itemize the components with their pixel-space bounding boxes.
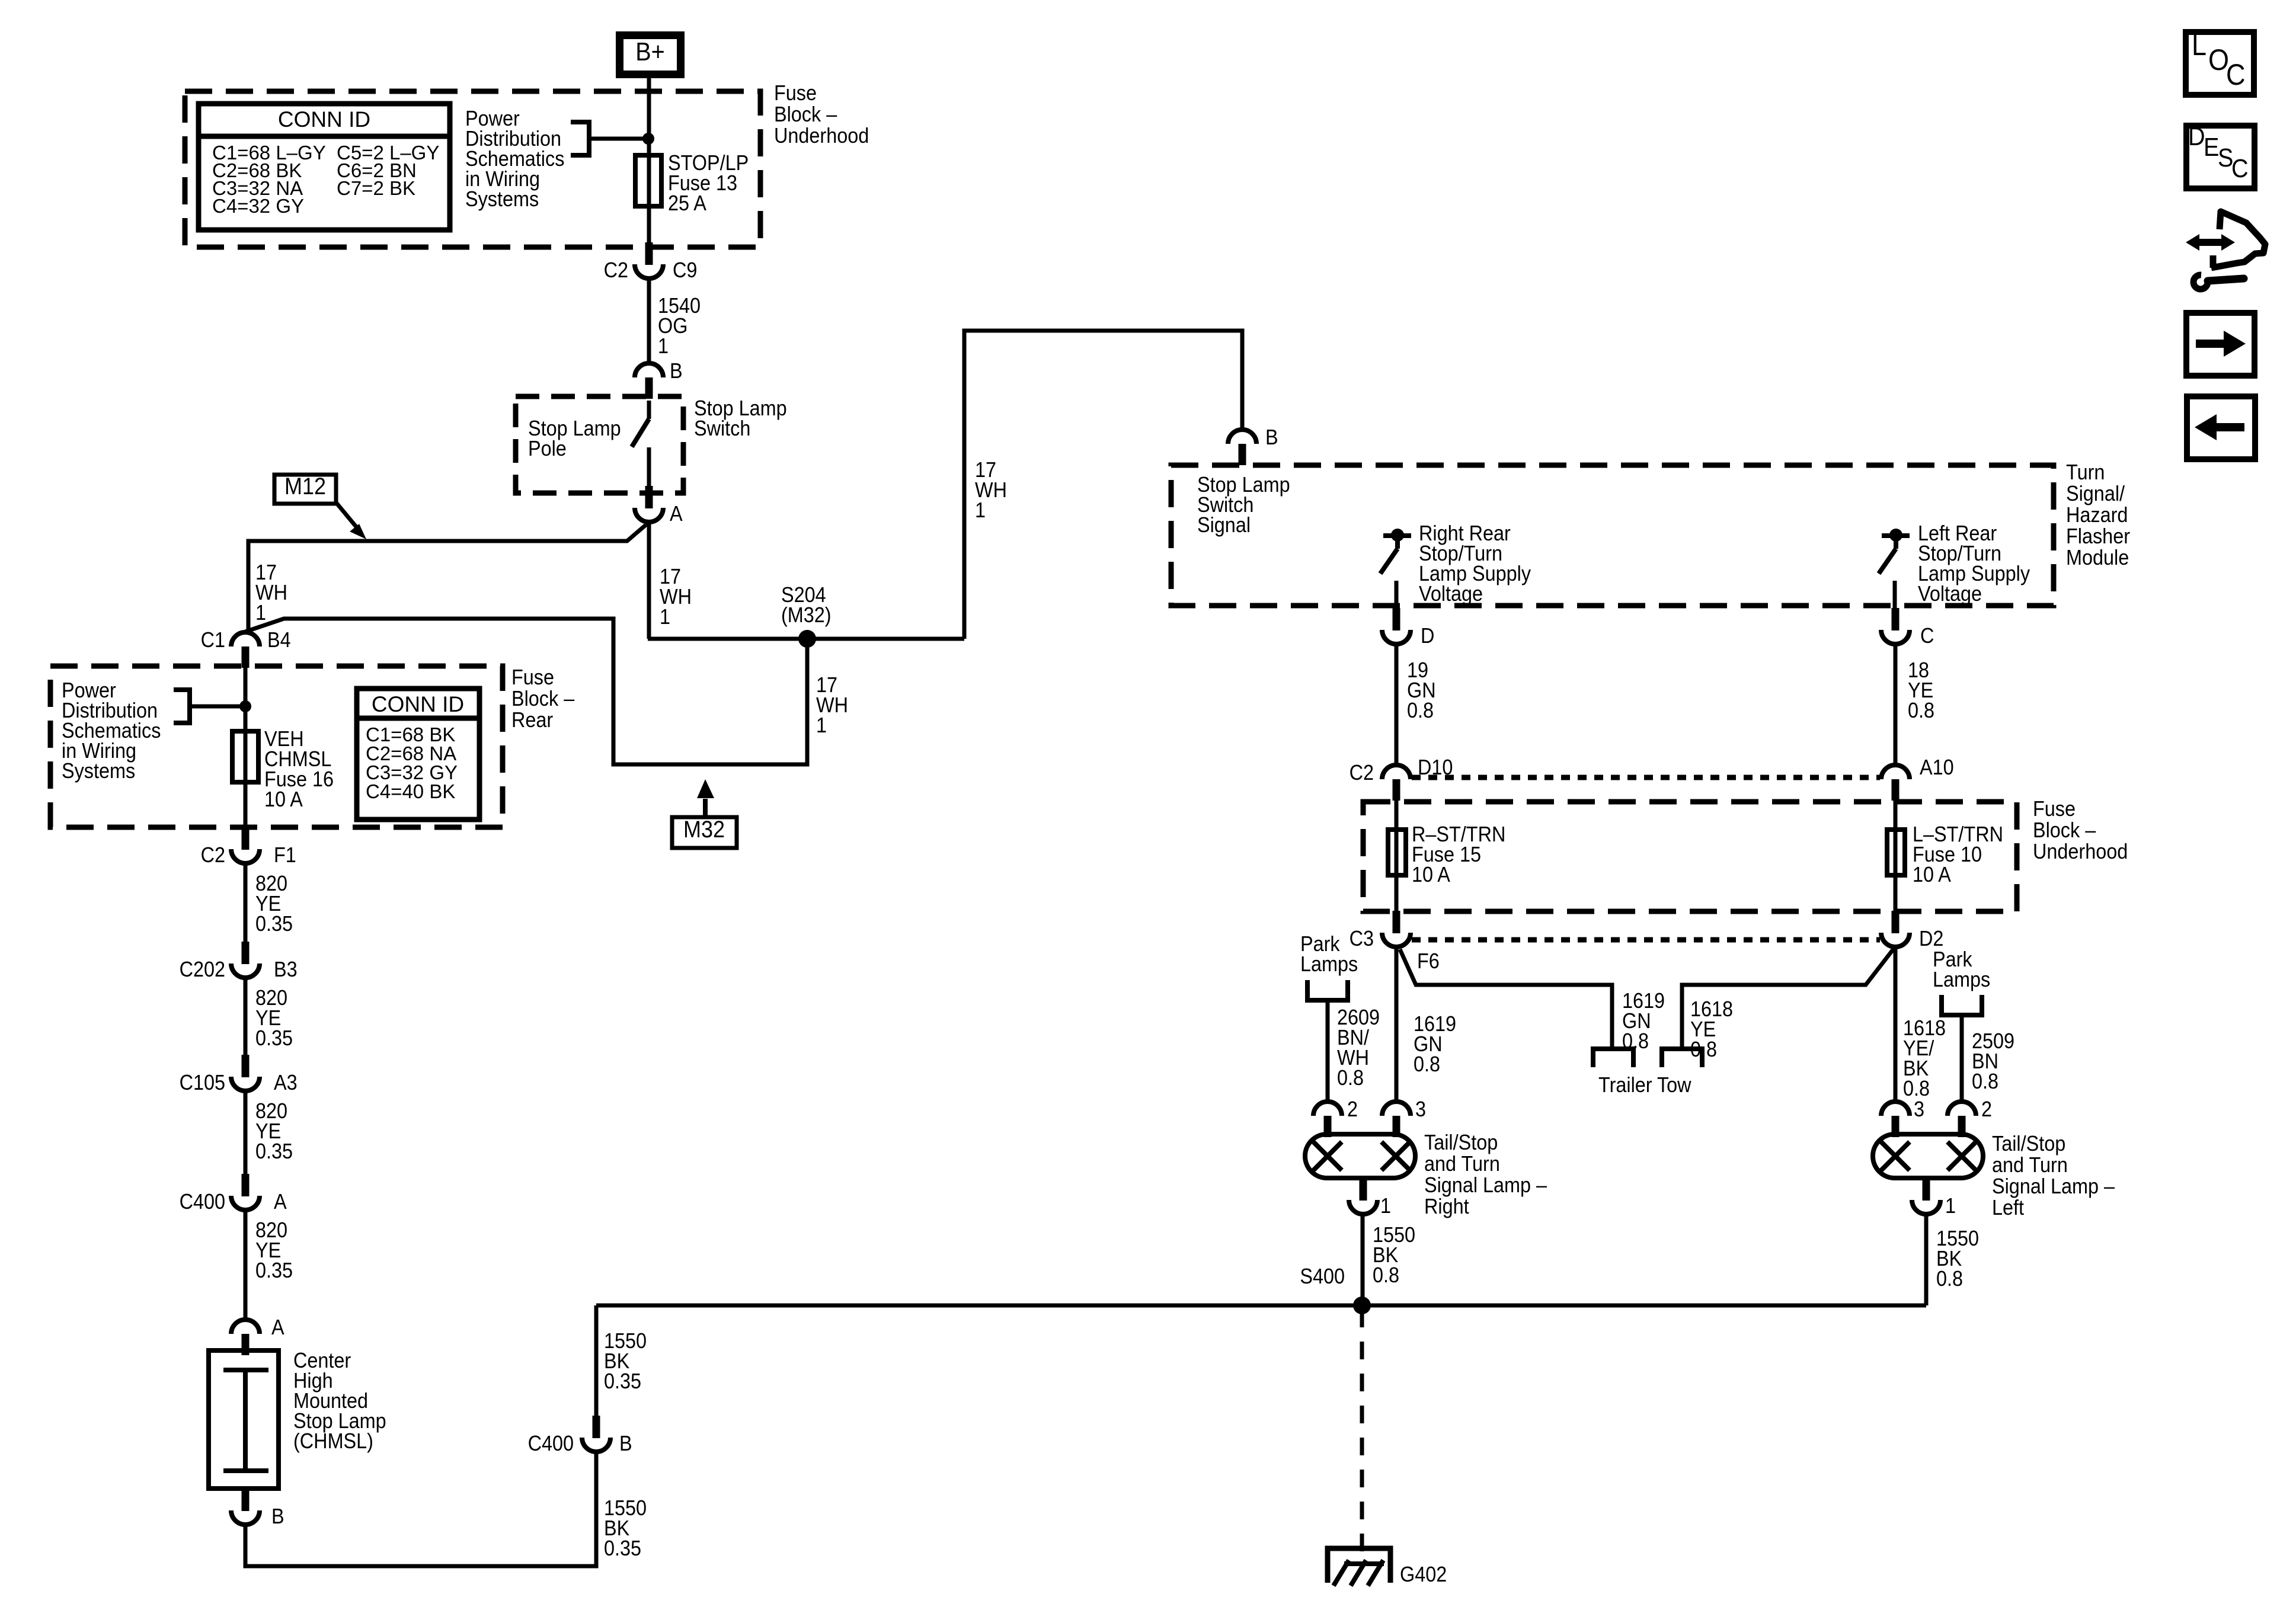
connector C2/F1 [242,827,250,850]
label S204 (M32) [781,583,826,607]
label wire 17 WH 1 (left drop) [255,561,277,584]
svg-text:C400: C400 [528,1432,574,1455]
connector C module [1892,608,1900,630]
svg-text:C4=40 BK: C4=40 BK [366,780,455,802]
label wire 1618 YE 0.8 (trailer) [1690,997,1733,1021]
wire 17 WH from A down to S204 line [647,522,651,639]
connector pin3 left lamp [1881,1102,1910,1116]
trailer tow fork left [1593,1049,1633,1067]
connector C202/B3 [242,942,250,964]
svg-text:Pole: Pole [528,437,567,460]
svg-text:Voltage: Voltage [1918,582,1982,606]
label Center High Mounted Stop Lamp (CHMSL) [293,1349,351,1372]
icon DESC box [2186,126,2255,188]
svg-text:1: 1 [816,713,827,737]
label Left Rear Stop/Turn Lamp Supply Voltage [1918,521,1997,545]
svg-text:D: D [1421,624,1434,648]
svg-text:1: 1 [1945,1194,1956,1218]
svg-text:M32: M32 [683,817,725,843]
dotted connector line C2-A10 [1412,775,1880,780]
svg-text:A: A [670,502,683,526]
svg-text:(CHMSL): (CHMSL) [293,1429,373,1453]
icon vehicle service symbol [2186,234,2235,251]
svg-text:C9: C9 [673,258,697,282]
svg-text:F1: F1 [274,843,296,867]
label 2 (left lamp) [1981,1097,1992,1121]
svg-text:and Turn: and Turn [1992,1153,2068,1177]
label C [1920,624,1934,648]
svg-text:Signal: Signal [1197,513,1251,537]
svg-text:0.35: 0.35 [255,1259,293,1282]
svg-text:0.8: 0.8 [1972,1070,1998,1093]
ground symbol G402 [1328,1548,1390,1583]
label wire 820 YE 0.35 (C202) [255,986,287,1010]
label Stop Lamp Switch Signal [1197,473,1290,497]
svg-text:0.35: 0.35 [255,1026,293,1050]
label C202 [180,958,225,981]
svg-text:C1: C1 [201,628,225,652]
junction S400 dot [1353,1297,1371,1314]
svg-text:Voltage: Voltage [1419,582,1483,606]
CONN ID rows col2 [337,142,439,164]
svg-text:1: 1 [658,334,669,358]
wire D2 to trailer tow [1682,948,1894,1049]
label B4 [267,628,291,652]
label D [1421,624,1434,648]
svg-text:G402: G402 [1400,1563,1447,1586]
connector C400/B [593,1416,600,1438]
svg-text:2: 2 [1981,1097,1992,1121]
junction dot on CHMSL fuse wire [239,700,251,712]
park lamps fork (left lamp) [1942,995,1982,1015]
svg-text:C2: C2 [201,843,225,867]
svg-text:Block –: Block – [511,687,575,710]
svg-text:M12: M12 [284,473,326,500]
svg-text:0.8: 0.8 [1373,1263,1399,1287]
label 3 (right lamp) [1415,1097,1426,1121]
wire C1 pin to fuse [244,666,248,731]
svg-text:3: 3 [1415,1097,1426,1121]
svg-text:10 A: 10 A [264,788,303,811]
wire 1619 GN to right lamp pin3 [1395,947,1399,1101]
label Trailer Tow [1598,1073,1691,1097]
connector pin2 left lamp [1948,1102,1976,1116]
dashed wire S400 to G402 [1360,1310,1364,1564]
ground bus wire [596,1304,1926,1308]
connector C400/A [242,1174,250,1196]
svg-text:Module: Module [2066,546,2129,569]
connector A stop lamp switch [645,486,653,508]
svg-text:D2: D2 [1919,927,1943,950]
svg-text:Tail/Stop: Tail/Stop [1992,1132,2065,1156]
svg-text:C4=32 GY: C4=32 GY [212,195,304,217]
label D2 [1919,927,1943,950]
label wire 18 YE 0.8 [1908,658,1929,682]
CHMSL element [223,1368,268,1372]
connector pin2 right lamp [1313,1102,1342,1116]
label wire 820 YE 0.35 (C2) [255,872,287,895]
label Park Lamps (right) [1933,948,1972,971]
svg-text:Systems: Systems [465,187,539,211]
tail/stop turn signal lamp right [1305,1134,1415,1178]
label wire 2609 BN/WH 0.8 [1337,1006,1380,1029]
svg-text:C2: C2 [1350,761,1374,785]
svg-text:Fuse: Fuse [511,665,554,689]
wire C3 to trailer tow [1400,949,1612,1049]
wire B4 to S204 (17 WH) [245,619,807,764]
label wire 1619 GN 0.8 (lamp) [1414,1012,1456,1036]
bracket to power distribution [571,122,589,155]
svg-text:A: A [274,1190,287,1214]
svg-text:3: 3 [1914,1097,1924,1121]
svg-text:0.8: 0.8 [1337,1066,1364,1090]
wire B+ to fuse block [647,78,651,156]
connector pin1 right lamp [1360,1178,1367,1201]
connector pin1 left lamp [1923,1178,1930,1201]
svg-text:and Turn: and Turn [1424,1152,1500,1176]
label Tail/Stop and Turn Signal Lamp Left [1992,1132,2065,1156]
svg-text:CONN ID: CONN ID [372,692,464,716]
svg-text:0.35: 0.35 [255,912,293,936]
svg-text:C3: C3 [1350,927,1374,950]
wire S204 up-over to module B [964,331,1242,639]
icon left-arrow box [2187,396,2255,459]
svg-text:B: B [271,1505,284,1528]
connector B stop lamp switch [635,363,663,377]
label F1 [274,843,296,867]
M32 arrow [703,799,708,817]
icon LOC letters [2192,29,2207,62]
svg-text:B: B [619,1432,632,1455]
label wire 17 WH 1 (below A) [660,565,681,588]
svg-text:B+: B+ [635,37,665,66]
svg-text:C202: C202 [180,958,225,981]
svg-text:A: A [271,1315,284,1339]
icon right-arrow box [2186,313,2255,376]
icon right-arrow [2196,340,2227,348]
junction dot on B+ wire [642,133,654,145]
label C2 (D10) [1350,761,1374,785]
svg-text:10 A: 10 A [1913,863,1951,886]
dotted connector line C3-D2 [1412,937,1880,943]
label 1 (right lamp) [1380,1194,1391,1218]
label A (CHMSL) [271,1315,284,1339]
svg-text:Lamps: Lamps [1300,952,1358,976]
fuse block underhood dashed box [185,91,760,247]
svg-text:1: 1 [975,498,986,522]
svg-text:Lamps: Lamps [1933,968,1990,991]
label B (stop lamp switch) [670,359,683,383]
svg-text:0.35: 0.35 [604,1537,641,1560]
label 3 (left lamp) [1914,1097,1924,1121]
label wire 17 WH 1 (riser) [975,458,996,482]
stop lamp switch dashed box [516,396,683,493]
label C2 [604,258,628,282]
label D10 [1418,756,1453,779]
svg-text:C: C [2231,153,2249,183]
svg-text:Tail/Stop: Tail/Stop [1424,1131,1498,1154]
svg-text:Trailer Tow: Trailer Tow [1598,1073,1691,1097]
svg-text:L: L [2192,29,2207,62]
connector C105/A3 [242,1055,250,1077]
bracket to power distribution (rear) [174,690,190,723]
svg-text:B: B [670,359,683,383]
svg-text:Switch: Switch [694,417,750,440]
label wire 1550 BK 0.35 (upper) [604,1329,647,1353]
label Stop Lamp Switch [694,396,787,420]
stop lamp switch blade [647,401,651,419]
label wire 1550 BK 0.8 (left) [1936,1227,1979,1250]
label Fuse Block Rear [511,665,554,689]
svg-text:0.8: 0.8 [1936,1267,1963,1291]
wire 1540 OG [647,279,651,363]
label wire 1619 GN 0.8 (trailer) [1622,989,1665,1013]
svg-text:2: 2 [1347,1097,1358,1121]
label wire 1540 OG 1 [658,294,701,318]
svg-text:0.8: 0.8 [1407,699,1434,722]
svg-text:B3: B3 [274,958,298,981]
connector C2/C9 [645,242,653,265]
icon left-arrow [2214,423,2244,431]
icon DESC letters [2188,121,2205,151]
fuse block rear dashed box [50,666,503,827]
label 2 (right lamp) [1347,1097,1358,1121]
wire 1550 BK right lamp to S400 [1361,1214,1365,1305]
svg-text:1: 1 [255,601,266,625]
svg-text:A10: A10 [1920,756,1954,779]
svg-text:0.8: 0.8 [1414,1052,1440,1076]
CHMSL lamp box [209,1350,279,1489]
label Right Rear Stop/Turn Lamp Supply Voltage [1419,521,1511,545]
label STOP/LP Fuse 13 25 A [668,151,749,175]
label wire 19 GN 0.8 [1407,658,1428,682]
wire 2509 BN [1960,1015,1964,1101]
label C400 [180,1190,225,1214]
svg-text:Underhood: Underhood [774,124,869,148]
junction S204 dot [798,630,816,648]
svg-text:Block –: Block – [2033,818,2096,842]
label R-ST/TRN Fuse 15 10 A [1412,822,1505,846]
wire 2609 BN/WH [1326,1000,1330,1101]
label wire 1550 BK 0.35 (lower) [604,1496,647,1520]
svg-text:C105: C105 [180,1071,225,1094]
label G402 [1400,1563,1447,1586]
svg-text:Fuse: Fuse [2033,797,2076,821]
fuse VEH CHMSL Fuse 16 10A [232,731,258,782]
label C9 [673,258,697,282]
svg-text:Hazard: Hazard [2066,503,2128,527]
svg-text:Underhood: Underhood [2033,840,2128,863]
svg-text:Signal Lamp –: Signal Lamp – [1992,1174,2115,1198]
turn signal hazard flasher module dashed box [1171,465,2054,606]
connector C2/D10 [1382,765,1411,779]
label S400 [1300,1265,1345,1288]
label L-ST/TRN Fuse 10 10 A [1913,822,2003,846]
connector pin3 right lamp [1382,1102,1411,1116]
left rear stop/turn switch [1882,533,1910,538]
svg-text:Rear: Rear [511,708,553,732]
label B3 [274,958,298,981]
svg-text:0.35: 0.35 [604,1369,641,1393]
svg-text:B4: B4 [267,628,291,652]
label C1 [201,628,225,652]
svg-text:Block –: Block – [774,103,837,126]
svg-text:Signal Lamp –: Signal Lamp – [1424,1173,1547,1197]
svg-text:Signal/: Signal/ [2066,482,2125,505]
connector C1/B4 [231,632,260,646]
label A (stop lamp switch) [670,502,683,526]
label Fuse Block Underhood [774,81,817,105]
M12 reference box [274,475,336,504]
label wire 2509 BN 0.8 [1972,1029,2014,1053]
connector A CHMSL [231,1320,260,1334]
svg-text:C7=2 BK: C7=2 BK [337,177,415,199]
label A [274,1190,287,1214]
label C3 [1350,927,1374,950]
fuse block underhood 2 dashed box [1363,802,2017,911]
connector C3/F6 [1393,911,1400,933]
svg-text:Left: Left [1992,1196,2024,1219]
fuse L-ST/TRN Fuse 10 10A [1894,801,1898,830]
label Tail/Stop and Turn Signal Lamp Right [1424,1131,1498,1154]
label C105 [180,1071,225,1094]
label Power Distribution Schematics (underhood) [465,107,520,130]
connector A10 [1881,765,1910,779]
label B (CHMSL) [271,1505,284,1528]
label Stop Lamp Pole [528,417,621,440]
svg-text:1: 1 [660,605,670,629]
wire 820 YE below C105 [244,1091,248,1174]
label CONN ID header [278,107,370,132]
svg-text:Fuse: Fuse [774,81,817,105]
connector B flasher module [1228,430,1256,444]
park lamps fork (right lamp) [1307,980,1348,1000]
fuse STOP/LP Fuse 13 25A [647,139,651,242]
wire 1550 BK left lamp to ground bus [1924,1214,1929,1305]
wire CHMSL B to C400/B riser [245,1452,596,1566]
label 1 (left lamp) [1945,1194,1956,1218]
label C2 [201,843,225,867]
CONN ID table (rear) [357,689,479,820]
svg-text:10 A: 10 A [1412,863,1450,886]
svg-text:25 A: 25 A [668,191,706,215]
svg-text:F6: F6 [1417,949,1440,973]
M12 arrow [336,502,356,527]
label wire 820 YE 0.35 (C400) [255,1218,287,1242]
label Turn Signal Hazard Flasher Module [2066,460,2105,484]
wire 18 YE [1894,644,1898,764]
svg-text:(M32): (M32) [781,603,832,627]
svg-text:Right: Right [1424,1195,1469,1218]
connector D2 [1892,911,1900,933]
label CONN ID header (rear) [372,692,464,716]
wire 820 YE below C202 [244,978,248,1055]
wire S204 horizontal [648,637,964,641]
svg-text:B: B [1265,425,1278,449]
svg-text:1: 1 [1380,1194,1391,1218]
tail/stop turn signal lamp left [1873,1134,1983,1178]
M32 reference box [672,817,737,848]
label Fuse Block Underhood (2) [2033,797,2076,821]
svg-text:E: E [2204,132,2219,161]
label wire 1550 BK 0.8 (right) [1373,1223,1415,1247]
connector D module [1393,608,1400,630]
label A10 [1920,756,1954,779]
svg-text:Flasher: Flasher [2066,524,2130,548]
right rear stop/turn switch [1383,533,1411,538]
svg-text:D: D [2188,121,2205,151]
CONN ID rows col1 [212,142,326,164]
wire below switch blade [647,447,651,486]
label F6 [1417,949,1440,973]
wire fuse to C2/F1 [244,782,248,827]
wire 820 YE below C2 [244,863,248,942]
svg-text:Turn: Turn [2066,460,2105,484]
svg-text:A3: A3 [274,1071,298,1094]
label wire 17 WH 1 (S204 drop) [816,673,837,697]
label VEH CHMSL Fuse 16 10 A [264,727,304,751]
icon LOC box [2186,32,2254,95]
svg-text:S400: S400 [1300,1265,1345,1288]
svg-text:C: C [2226,59,2245,92]
CONN ID table (underhood) [199,104,450,230]
svg-text:C: C [1920,624,1934,648]
connector B CHMSL [242,1489,250,1511]
battery feed B+ terminal box [616,31,685,78]
svg-text:C2: C2 [604,258,628,282]
label B (module) [1265,425,1278,449]
trailer tow fork right [1662,1049,1702,1067]
label Park Lamps (left) [1300,932,1340,956]
svg-text:C400: C400 [180,1190,225,1214]
label wire 1618 YE/BK 0.8 [1903,1016,1946,1040]
CONN ID rows (rear) [366,724,455,745]
wire A to M12 horizontal [248,523,648,632]
label B (C400) [619,1432,632,1455]
svg-text:0.35: 0.35 [255,1140,293,1163]
svg-text:0.8: 0.8 [1908,699,1934,722]
wire 1618 YE/BK to left lamp pin3 [1894,947,1898,1101]
label A3 [274,1071,298,1094]
svg-text:0.8: 0.8 [1903,1077,1930,1100]
wire C400/B up to ground bus [594,1305,599,1416]
label Power Distribution Schematics (rear) [62,678,116,702]
fuse R-ST/TRN Fuse 15 10A [1395,801,1399,830]
wire 19 GN [1395,644,1399,764]
wire 820 YE below C400 [244,1210,248,1319]
label wire 820 YE 0.35 (C105) [255,1099,287,1123]
svg-text:Systems: Systems [62,759,135,783]
svg-text:CONN ID: CONN ID [278,107,370,132]
label C400 (B) [528,1432,574,1455]
